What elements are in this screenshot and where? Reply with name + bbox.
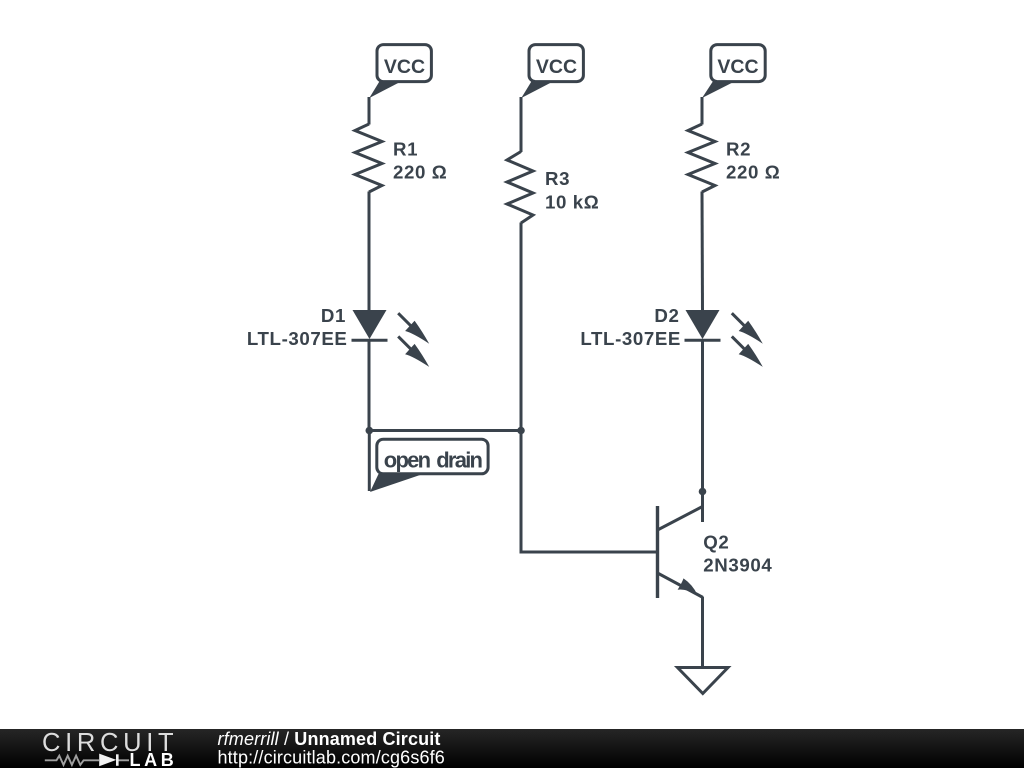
svg-text:220 Ω: 220 Ω — [393, 161, 447, 182]
svg-text:Q2: Q2 — [703, 532, 729, 553]
transistor Q2 base bar — [656, 506, 659, 598]
svg-text:LTL-307EE: LTL-307EE — [247, 328, 348, 349]
svg-text:http://circuitlab.com/cg6s6f6: http://circuitlab.com/cg6s6f6 — [218, 748, 445, 768]
wire node down to base run — [521, 431, 658, 553]
power flag VCC (left branch) — [369, 45, 431, 98]
svg-text:open drain: open drain — [384, 447, 483, 472]
svg-text:D1: D1 — [321, 305, 346, 326]
junction dot (collector node) — [699, 488, 707, 496]
ground symbol — [678, 668, 729, 694]
D1 light arrow 1 — [398, 313, 429, 344]
svg-text:VCC: VCC — [536, 56, 577, 78]
power flag VCC (middle branch) — [521, 45, 583, 98]
wire D2 to collector — [701, 340, 704, 522]
svg-text:R3: R3 — [545, 168, 570, 189]
svg-text:LAB: LAB — [130, 750, 178, 768]
svg-text:rfmerrill / Unnamed Circuit: rfmerrill / Unnamed Circuit — [218, 729, 441, 749]
Q2 emitter diagonal — [658, 573, 704, 598]
footer bar — [0, 729, 1024, 768]
annotation callout "open drain" — [370, 439, 488, 492]
svg-text:220 Ω: 220 Ω — [726, 161, 780, 182]
wire R3 to node — [520, 223, 523, 431]
wire VCC to R3 — [520, 97, 523, 152]
Q2 collector diagonal — [658, 507, 703, 531]
wire R2 to D2 — [701, 192, 705, 311]
power flag VCC (right branch) — [702, 45, 765, 98]
logo resistor-diode glyph — [45, 756, 129, 765]
wire emitter to ground — [701, 597, 704, 667]
resistor R1 — [355, 124, 382, 192]
D2 light arrow 1 — [732, 313, 763, 344]
resistor R3 — [507, 152, 533, 224]
wire D1 to node — [368, 340, 371, 431]
Q2 emitter arrowhead — [678, 578, 698, 594]
wire node to R3 branch — [369, 429, 521, 432]
resistor R2 — [688, 124, 715, 192]
LED D2 — [685, 310, 721, 340]
junction dot (open drain node) — [366, 427, 374, 435]
D1 light arrow 2 — [398, 336, 429, 367]
wire VCC to R1 — [368, 97, 371, 125]
wire VCC to R2 — [701, 97, 704, 125]
svg-text:R1: R1 — [393, 139, 418, 160]
svg-text:LTL-307EE: LTL-307EE — [580, 328, 681, 349]
D2 light arrow 2 — [732, 336, 763, 367]
LED D1 — [352, 310, 388, 340]
svg-text:2N3904: 2N3904 — [703, 555, 772, 576]
svg-text:10 kΩ: 10 kΩ — [545, 191, 599, 212]
junction dot (R3 bottom) — [517, 427, 525, 435]
wire R1 to D1 — [368, 192, 371, 311]
wire stub to callout anchor — [368, 431, 371, 492]
svg-text:VCC: VCC — [717, 56, 758, 78]
svg-text:VCC: VCC — [384, 56, 425, 78]
svg-text:D2: D2 — [654, 305, 679, 326]
svg-text:R2: R2 — [726, 139, 751, 160]
